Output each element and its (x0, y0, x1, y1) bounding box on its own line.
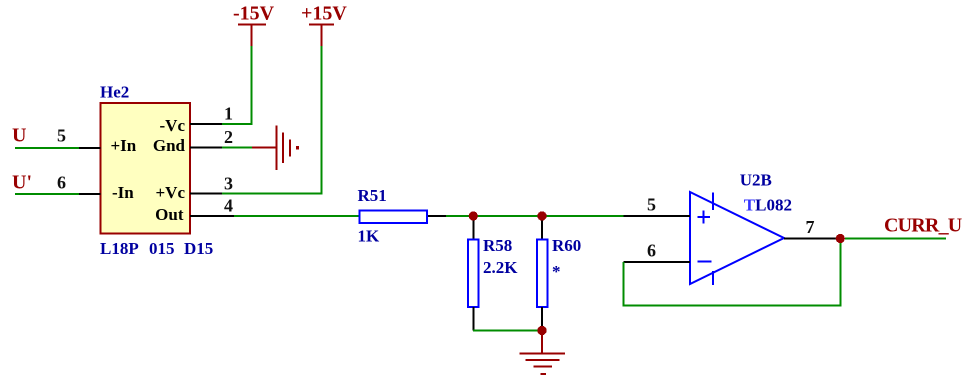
pin stub right of R51 (428, 215, 446, 217)
wire -15V vertical (251, 46, 253, 125)
pin 1 stub (190, 123, 224, 125)
wire pin1 to -15V corner (222, 123, 253, 125)
svg-text:R58: R58 (483, 236, 512, 255)
svg-text:*: * (552, 262, 561, 281)
op-amp power tick top (712, 193, 714, 211)
junction node at R60 top (537, 211, 546, 220)
op-amp power tick bottom (712, 271, 714, 285)
svg-text:-Vc: -Vc (160, 116, 186, 135)
pin 2 stub (190, 147, 223, 149)
svg-text:He2: He2 (100, 82, 129, 101)
pin stub R58 top (472, 216, 474, 239)
power -15V bar symbol (238, 24, 266, 47)
wire U' input (15, 193, 79, 195)
svg-text:1: 1 (224, 104, 233, 124)
svg-text:5: 5 (647, 195, 656, 215)
svg-text:7: 7 (806, 217, 815, 237)
svg-text:+Vc: +Vc (155, 183, 185, 202)
pin stub R60 bottom (541, 307, 543, 327)
svg-text:CURR_U: CURR_U (884, 215, 962, 237)
svg-text:2: 2 (224, 127, 233, 147)
svg-text:6: 6 (647, 241, 656, 261)
svg-text:3: 3 (224, 174, 233, 194)
pin stub R58 bottom (472, 307, 474, 331)
wire R51 to opamp main net (446, 215, 624, 217)
svg-text:015: 015 (149, 239, 175, 258)
svg-text:TL082: TL082 (744, 196, 792, 215)
wire U input (15, 147, 79, 149)
chassis ground symbol right of pin2 (275, 126, 299, 171)
svg-text:1K: 1K (358, 226, 381, 245)
pin 6 stub opamp (624, 261, 691, 263)
svg-text:2.2K: 2.2K (483, 258, 518, 277)
svg-text:+15V: +15V (301, 2, 347, 24)
svg-text:-15V: -15V (233, 3, 275, 25)
power +15V bar symbol (309, 24, 334, 47)
junction node at ground (537, 326, 546, 335)
wire junction to earth ground (541, 334, 543, 353)
pin 3 stub (190, 193, 227, 195)
pin 7 stub opamp output (784, 238, 836, 240)
wire pin3 to +15V corner (222, 193, 323, 195)
pin 5 stub opamp (624, 215, 691, 217)
wire pin2 ground lead maroon (252, 147, 276, 149)
svg-text:R51: R51 (358, 186, 387, 205)
resistor R58 body (468, 240, 479, 308)
svg-text:U2B: U2B (740, 171, 772, 190)
svg-text:U': U' (12, 172, 32, 194)
op-amp minus marker (697, 261, 711, 263)
svg-text:R60: R60 (552, 236, 581, 255)
op-amp plus marker (697, 211, 710, 224)
wire feedback vertical left (623, 262, 625, 307)
svg-text:4: 4 (224, 196, 233, 216)
svg-text:U: U (12, 125, 26, 147)
svg-text:L18P: L18P (100, 239, 139, 258)
svg-text:6: 6 (57, 173, 66, 193)
wire pin2 to ground (green part) (222, 147, 252, 149)
wire R58 bottom to R60 bottom (473, 330, 542, 332)
svg-text:5: 5 (57, 126, 66, 146)
junction node at output (836, 234, 845, 243)
svg-text:-In: -In (112, 183, 134, 202)
svg-text:+In: +In (111, 136, 137, 155)
resistor R51 body (360, 211, 428, 224)
wire feedback bottom (623, 305, 842, 307)
earth ground symbol (520, 352, 566, 375)
component U He2 isolation amp body (101, 103, 191, 234)
wire pin4 to R51 (234, 215, 360, 217)
svg-text:Out: Out (155, 205, 184, 224)
svg-text:D15: D15 (184, 239, 213, 258)
pin 6 stub left (79, 193, 101, 195)
junction node at R58 top (469, 211, 478, 220)
wire +15V vertical (321, 46, 323, 195)
resistor R60 body (537, 240, 548, 308)
pin stub R60 top (541, 216, 543, 239)
svg-text:Gnd: Gnd (153, 136, 186, 155)
wire feedback vertical right (839, 239, 841, 307)
wire output to CURR_U (845, 238, 946, 240)
op-amp U2B triangle (690, 192, 784, 284)
pin 5 stub left (79, 147, 101, 149)
pin 4 stub (190, 215, 234, 217)
